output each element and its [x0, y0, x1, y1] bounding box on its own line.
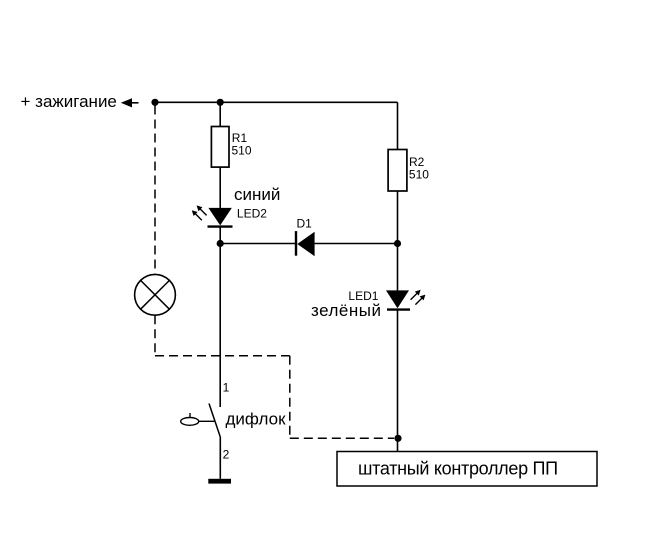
node B (R1 tap)	[217, 99, 224, 106]
svg-text:510: 510	[409, 167, 429, 181]
wire: R1 top lead	[219, 102, 221, 126]
LED1 (зелёный)	[386, 290, 425, 310]
dashed wire: to node E	[290, 437, 394, 439]
svg-text:синий: синий	[234, 185, 280, 204]
ground	[208, 479, 231, 484]
wire: node C to D1	[220, 243, 296, 245]
svg-text:зелёный: зелёный	[311, 301, 381, 320]
node A (ignition rail tap)	[151, 99, 158, 106]
svg-text:510: 510	[232, 144, 252, 158]
LED2 (синий)	[192, 205, 233, 226]
wire: node C to switch pin 1	[219, 244, 221, 408]
wire: R2 to LED1	[397, 191, 399, 291]
wire: top rail to R2	[397, 102, 399, 149]
svg-text:+ зажигание: + зажигание	[21, 92, 117, 111]
controller box	[337, 452, 597, 487]
dashed wire: node A down to lamp	[154, 106, 156, 275]
wire: switch pin 2 to ground	[219, 437, 221, 479]
node D (R2 / LED1 junction)	[394, 240, 401, 247]
svg-text:D1: D1	[297, 217, 313, 231]
dashed wire: vertical drop	[289, 356, 291, 439]
diode D1	[296, 231, 315, 256]
lamp HL (indicator)	[135, 274, 176, 315]
wire: top rail	[155, 101, 398, 103]
node C (LED2 / D1 / switch junction)	[217, 240, 224, 247]
wire: LED2 to node C	[219, 227, 221, 244]
resistor R2	[388, 150, 407, 192]
wire: D1 to node D	[315, 243, 398, 245]
svg-text:дифлок: дифлок	[226, 410, 287, 429]
svg-text:штатный контроллер ПП: штатный контроллер ПП	[358, 459, 558, 479]
svg-text:1: 1	[223, 381, 230, 395]
svg-text:2: 2	[223, 448, 230, 462]
node E (controller input)	[394, 435, 401, 442]
dashed wire: lamp to corner	[154, 315, 156, 356]
resistor R1	[211, 127, 229, 168]
wire: R1 to LED2	[219, 167, 221, 208]
dashed wire: horizontal run	[155, 355, 290, 357]
arrow to +ignition	[121, 98, 139, 107]
switch SA (дифлок)	[181, 404, 221, 438]
wire: LED1 to controller	[397, 310, 399, 452]
svg-text:LED2: LED2	[237, 207, 267, 221]
